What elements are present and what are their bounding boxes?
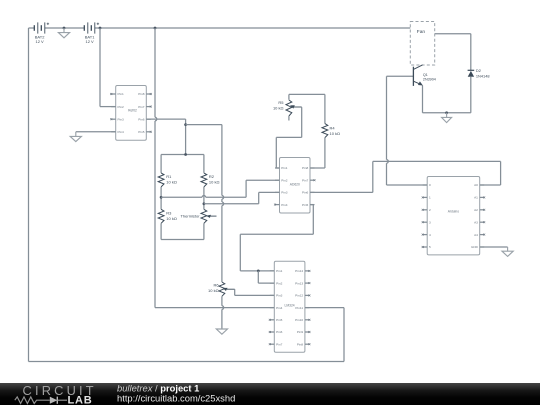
svg-text:Pin10: Pin10 (295, 318, 303, 322)
svg-text:10 kΩ: 10 kΩ (330, 131, 341, 136)
svg-text:Pin4: Pin4 (281, 203, 287, 207)
svg-text:R5: R5 (278, 100, 284, 105)
svg-text:12 V: 12 V (85, 39, 94, 44)
svg-text:Pin7: Pin7 (276, 342, 282, 346)
svg-text:Pin5: Pin5 (276, 318, 282, 322)
svg-text:Pin14: Pin14 (295, 269, 303, 273)
svg-text:1: 1 (429, 196, 431, 200)
svg-text:LAB: LAB (68, 394, 93, 405)
svg-text:10 kΩ: 10 kΩ (208, 288, 219, 293)
svg-text:10 kΩ: 10 kΩ (273, 106, 284, 111)
svg-text:Pin4: Pin4 (276, 306, 282, 310)
svg-text:Pin9: Pin9 (297, 330, 303, 334)
svg-text:Pin2: Pin2 (118, 105, 124, 109)
svg-text:Pin5: Pin5 (138, 130, 144, 134)
svg-text:R3: R3 (166, 210, 172, 215)
svg-text:4: 4 (429, 233, 431, 237)
svg-text:10 kΩ: 10 kΩ (209, 179, 220, 184)
svg-text:Pin6: Pin6 (302, 191, 308, 195)
svg-text:12 V: 12 V (35, 39, 44, 44)
svg-text:2: 2 (429, 208, 431, 212)
svg-text:10 kΩ: 10 kΩ (166, 216, 177, 221)
svg-text:Pin6: Pin6 (276, 330, 282, 334)
svg-text:R6: R6 (213, 283, 219, 288)
svg-text:Pin12: Pin12 (295, 294, 303, 298)
svg-text:3: 3 (429, 220, 431, 224)
svg-text:Fan: Fan (417, 29, 426, 35)
svg-text:R4: R4 (330, 125, 336, 130)
svg-text:Ref02: Ref02 (128, 108, 137, 112)
svg-text:A3: A3 (474, 220, 478, 224)
svg-text:A1: A1 (474, 196, 478, 200)
svg-text:Thermistor: Thermistor (180, 214, 200, 219)
svg-text:A4: A4 (474, 233, 478, 237)
svg-text:2N3904: 2N3904 (423, 78, 436, 82)
svg-text:Pin1: Pin1 (118, 92, 124, 96)
svg-text:Pin4: Pin4 (118, 130, 124, 134)
svg-text:5: 5 (429, 245, 431, 249)
svg-text:Arduino: Arduino (448, 210, 460, 214)
svg-text:Pin8: Pin8 (138, 92, 144, 96)
svg-text:Pin6: Pin6 (138, 117, 144, 121)
svg-text:A0: A0 (474, 183, 478, 187)
svg-text:1N4148: 1N4148 (476, 73, 490, 78)
svg-text:10 kΩ: 10 kΩ (166, 179, 177, 184)
svg-text:R2: R2 (209, 174, 215, 179)
svg-text:Pin2: Pin2 (281, 178, 287, 182)
svg-text:0: 0 (429, 183, 431, 187)
svg-text:Pin3: Pin3 (118, 117, 124, 121)
svg-text:AD620: AD620 (290, 183, 300, 187)
svg-text:Pin7: Pin7 (138, 105, 144, 109)
svg-text:R1: R1 (166, 174, 172, 179)
svg-text:Pin3: Pin3 (276, 294, 282, 298)
svg-text:LM324: LM324 (285, 303, 295, 307)
svg-text:Q1: Q1 (423, 73, 428, 77)
svg-text:http://circuitlab.com/c25xshd: http://circuitlab.com/c25xshd (117, 393, 235, 404)
svg-text:Pin7: Pin7 (302, 178, 308, 182)
svg-text:Pin2: Pin2 (276, 281, 282, 285)
svg-text:Pin8: Pin8 (297, 342, 303, 346)
svg-text:Pin1: Pin1 (276, 269, 282, 273)
svg-text:A2: A2 (474, 208, 478, 212)
svg-text:Pin8: Pin8 (302, 166, 308, 170)
svg-text:GND: GND (471, 245, 479, 249)
svg-text:Pin3: Pin3 (281, 191, 287, 195)
svg-text:Pin1: Pin1 (281, 166, 287, 170)
svg-text:Pin13: Pin13 (295, 281, 303, 285)
svg-text:Pin5: Pin5 (302, 203, 308, 207)
svg-text:Pin11: Pin11 (295, 306, 303, 310)
